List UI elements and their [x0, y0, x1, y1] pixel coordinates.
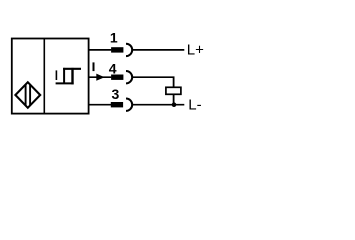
- baseline: [56, 82, 74, 84]
- internal divider: [43, 39, 45, 114]
- wire to L+: [132, 49, 184, 51]
- connector pin 3 (male contact): [111, 102, 123, 107]
- connector pin 4 (male contact): [111, 75, 123, 80]
- svg-text:4: 4: [109, 61, 117, 77]
- svg-text:1: 1: [110, 29, 118, 45]
- wire pin3 from body: [89, 104, 112, 106]
- wire pin4 from body: [89, 76, 112, 78]
- wire pin4 to load branch: [132, 76, 174, 78]
- svg-text:3: 3: [112, 86, 120, 102]
- connector socket 3 (female arc): [126, 99, 132, 111]
- left vertical: [63, 68, 65, 84]
- sensor body outline: [12, 39, 89, 114]
- top bar: [63, 68, 81, 70]
- current label I: [93, 62, 95, 71]
- svg-text:L-: L-: [188, 97, 201, 114]
- switching output symbol (step): [56, 68, 81, 85]
- connector pin 1 (male contact): [111, 47, 123, 52]
- svg-text:L+: L+: [187, 42, 204, 59]
- load branch vertical lower: [173, 94, 175, 104]
- junction node: [172, 102, 177, 107]
- load resistor: [166, 87, 181, 94]
- connector socket 4 (female arc): [126, 71, 132, 83]
- current direction arrow: [96, 74, 104, 81]
- connector socket 1 (female arc): [126, 44, 132, 56]
- tick: [55, 70, 57, 80]
- right vertical: [71, 68, 73, 85]
- load branch vertical upper: [173, 77, 175, 88]
- wire to L-: [132, 104, 184, 106]
- wire pin1 from body: [89, 49, 112, 51]
- inductive sensing element (diamond): [15, 82, 40, 108]
